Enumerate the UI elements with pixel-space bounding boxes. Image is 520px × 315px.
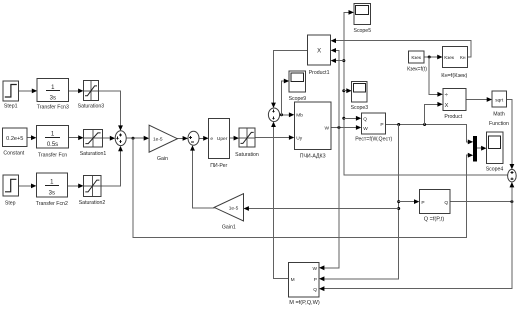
wire Uz feedback: Sum1 junction down, right, up to Mux bottom input	[133, 138, 473, 237]
wire Transfer Fcn3 to Saturation3	[69, 89, 84, 94]
junction W line	[337, 126, 340, 129]
junction P to Gain1 input	[397, 207, 400, 210]
svg-text:sqrt: sqrt	[495, 98, 504, 104]
wire Q=f(P,t) output right to vertical Q trunk	[450, 201, 512, 203]
svg-text:Gain: Gain	[157, 156, 168, 162]
wire W branch down to M block W input	[319, 128, 339, 271]
wire Saturation2 to Sum1 bottom input	[101, 146, 123, 186]
wire Saturation output to Uy input of PCHI-ADKZ	[255, 135, 294, 140]
junction P line at vertical trunk	[397, 123, 400, 126]
svg-text:e: e	[210, 137, 213, 142]
sum Sum5	[508, 169, 517, 182]
svg-text:W: W	[312, 266, 317, 272]
junction Qest to Product1 bottom input	[342, 59, 345, 62]
block Saturation	[235, 128, 259, 158]
block Saturation3	[78, 81, 105, 110]
svg-text:Scope9: Scope9	[289, 96, 307, 102]
wire Kn output loop up and left to Product1 top input	[331, 38, 471, 57]
svg-text:Кн=f(Кзек): Кн=f(Кзек)	[441, 73, 467, 79]
svg-text:Saturation2: Saturation2	[79, 200, 106, 206]
junction P line to Product X input	[423, 123, 426, 126]
svg-text:Transfer Fcn: Transfer Fcn	[38, 152, 67, 158]
svg-text:Scope3: Scope3	[351, 105, 369, 111]
product Product1 (flipped, X)	[308, 35, 331, 76]
scope Scope3	[351, 81, 369, 111]
svg-text:Scope4: Scope4	[486, 166, 504, 172]
wire W output to Rest W input	[331, 125, 361, 130]
svg-text:Product: Product	[444, 114, 462, 120]
svg-text:Q =f(P,t): Q =f(P,t)	[424, 216, 445, 222]
sum Sum1	[115, 131, 126, 146]
svg-text:1e-5: 1e-5	[153, 137, 163, 143]
svg-text:M: M	[291, 277, 295, 283]
svg-text:Кзек: Кзек	[411, 55, 422, 61]
svg-text:ПЧИ-АДКЗ: ПЧИ-АДКЗ	[300, 154, 326, 160]
wire Q trunk down and left to M block Q input	[319, 202, 512, 292]
wire Qest branch to Scope3 input	[344, 88, 352, 93]
svg-text:W: W	[324, 125, 329, 131]
wire Gain1 output left and up to Sum2 bottom input	[190, 145, 214, 208]
block Step	[3, 175, 18, 206]
block Rest=f(W,Qest) (Рест)	[355, 113, 392, 143]
svg-text:Gain1: Gain1	[222, 225, 236, 231]
block Transfer Fcn3	[37, 79, 69, 111]
scope Scope4	[486, 132, 504, 172]
wire Constant to Transfer Fcn	[27, 135, 36, 140]
junction Qest to Rest Q input	[342, 117, 345, 120]
svg-text:M =f(P,Q,W): M =f(P,Q,W)	[289, 300, 320, 306]
svg-text:1e-5: 1e-5	[229, 206, 239, 212]
wire Qest branch to Rest Q input	[344, 116, 362, 121]
wire P vertical trunk down to M block P input	[319, 125, 399, 282]
block PI-Reg (ПИ-Рег)	[209, 119, 230, 169]
junction Sum1 output branch	[132, 137, 135, 140]
sum Sum3	[268, 108, 279, 122]
junction P to Q=f(P,t) input	[397, 200, 400, 203]
gain Gain1 (flipped)	[214, 194, 243, 231]
junction Qest to Scope3	[342, 89, 345, 92]
block Constant	[3, 128, 27, 157]
wire Mux output to Scope4 input	[477, 146, 487, 151]
svg-text:Step: Step	[5, 200, 16, 206]
block M=f(P,Q,W)	[289, 262, 320, 306]
svg-text:Кзек: Кзек	[444, 55, 455, 61]
svg-text:Constant: Constant	[3, 151, 24, 157]
wire Saturation3 to Sum1 top input	[99, 91, 123, 131]
svg-text:W: W	[363, 126, 368, 132]
wire Step1 to Transfer Fcn3	[19, 89, 38, 94]
wire sqrt output down to Sum5 top input	[506, 100, 514, 170]
block Kzek=f(t) (Кзек)	[407, 51, 427, 73]
sum Sum2	[188, 131, 199, 145]
block Saturation1	[80, 129, 107, 157]
wire M output to Sum3 bottom input	[271, 122, 289, 279]
svg-text:Mb: Mb	[296, 113, 303, 119]
junction Q trunk	[510, 200, 513, 203]
mux Mux	[473, 136, 477, 162]
block Step1	[3, 81, 19, 110]
product Product (divide)	[443, 89, 466, 120]
wire PI-Reg output to Saturation input	[230, 136, 240, 141]
svg-text:Кзек=f(t): Кзек=f(t)	[407, 67, 427, 73]
wire P output trunk to Mux top input	[385, 125, 473, 145]
wire branch to Scope9 input	[282, 79, 290, 115]
junction Sum3 output branch to Scope9	[280, 113, 283, 116]
wire Kzek branch down to Product divide input	[429, 57, 443, 97]
svg-text:Saturation: Saturation	[235, 152, 259, 158]
svg-text:Q: Q	[313, 287, 317, 293]
wire Saturation1 to Sum1 left input	[102, 136, 115, 141]
svg-text:P: P	[380, 122, 383, 128]
wire P branch up to Product X input	[425, 102, 443, 125]
block Transfer Fcn2	[36, 173, 68, 207]
wire Sum3 output to Mb input	[280, 112, 295, 117]
svg-text:Product1: Product1	[309, 70, 330, 76]
svg-text:ПИ-Рег: ПИ-Рег	[210, 163, 227, 169]
svg-text:Scope5: Scope5	[353, 28, 371, 34]
wire W branch up to Product1 middle input	[331, 48, 339, 128]
wire Product output to sqrt input	[466, 97, 492, 102]
wire Sum2 output to PI-Reg input	[199, 136, 209, 141]
svg-text:Кн: Кн	[460, 55, 466, 61]
wire Product1 output to Sum3 top input	[271, 50, 308, 108]
wire Transfer Fcn to Saturation1	[69, 135, 84, 140]
svg-text:0.2e+5: 0.2e+5	[6, 136, 23, 142]
svg-text:Function: Function	[489, 121, 509, 127]
svg-text:Q: Q	[363, 117, 367, 123]
wire Transfer Fcn2 to Saturation2	[67, 184, 83, 189]
svg-text:Transfer Fcn3: Transfer Fcn3	[37, 105, 69, 111]
wire Qest trunk: Sum5 output left then up to Scope5	[344, 10, 508, 175]
wire Qest branch to Product1 bottom input	[331, 58, 344, 63]
svg-text:Step1: Step1	[4, 104, 18, 110]
block Kn=f(Kzek) (Кн)	[441, 46, 467, 78]
wire Sum1 output to Gain input	[126, 136, 149, 141]
svg-text:X: X	[445, 103, 449, 109]
svg-text:Transfer Fcn2: Transfer Fcn2	[36, 201, 68, 207]
svg-text:Q: Q	[444, 200, 448, 206]
svg-text:P: P	[421, 200, 424, 206]
block Transfer Fcn	[36, 126, 68, 159]
block Q=f(P,t)	[419, 190, 450, 223]
svg-text:Uper: Uper	[217, 136, 228, 142]
wire Step to Transfer Fcn2	[18, 184, 36, 189]
block PCHI-ADKZ (ПЧИ-АДКЗ)	[294, 102, 331, 160]
svg-text:Рест=f(W,Qест): Рест=f(W,Qест)	[355, 137, 392, 143]
svg-text:3s: 3s	[50, 95, 56, 101]
junction Kzek branch	[428, 56, 431, 59]
block Math Function sqrt	[489, 91, 509, 127]
scope Scope5	[353, 3, 371, 34]
wire Gain to Sum2 left input	[177, 136, 188, 141]
svg-text:3s: 3s	[49, 190, 55, 196]
block Saturation2	[79, 176, 106, 207]
svg-text:Math: Math	[493, 112, 505, 118]
svg-text:0.5s: 0.5s	[47, 142, 58, 148]
svg-text:X: X	[317, 49, 321, 55]
wire P branch to Q=f(P,t) P input	[399, 199, 420, 204]
wire Kzek output to Kn block input	[424, 55, 443, 60]
svg-text:Saturation1: Saturation1	[80, 151, 107, 157]
svg-text:Uy: Uy	[296, 135, 302, 141]
wire Q trunk up to Sum5 bottom input	[510, 182, 515, 202]
gain Gain	[149, 125, 177, 162]
wire P branch left to Gain1 input	[244, 206, 399, 211]
svg-text:Saturation3: Saturation3	[78, 104, 105, 110]
svg-text:P: P	[314, 277, 317, 283]
scope Scope9	[289, 71, 307, 102]
